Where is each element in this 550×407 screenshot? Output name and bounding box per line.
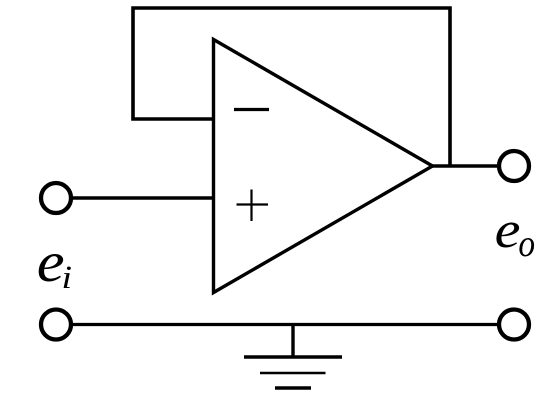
- wire bottom common: [72, 323, 498, 326]
- wire output: [430, 164, 498, 167]
- minus label (inverting input): [234, 108, 269, 111]
- svg-text:e: e: [37, 231, 65, 294]
- wire feedback loop from output to inverting input: [133, 8, 450, 166]
- svg-text:i: i: [62, 258, 73, 295]
- terminal bottom left: [41, 310, 71, 340]
- ground: [244, 325, 342, 389]
- svg-text:e: e: [495, 201, 521, 258]
- wire input to non-inverting input: [72, 196, 215, 199]
- plus label (non-inverting input): [237, 190, 269, 222]
- terminal input ei: [41, 183, 71, 213]
- terminal bottom right: [499, 310, 529, 340]
- svg-text:o: o: [518, 222, 535, 264]
- op-amp U1: [214, 40, 433, 293]
- terminal output eo: [499, 151, 529, 181]
